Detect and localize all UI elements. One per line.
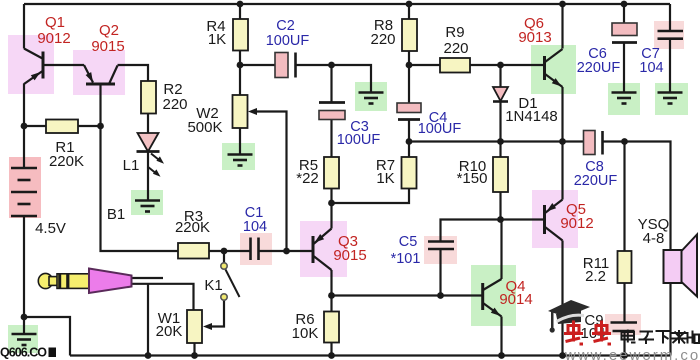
svg-text:4.5V: 4.5V <box>35 220 66 237</box>
highlight pad ground G2 <box>131 190 163 215</box>
svg-text:220K: 220K <box>49 153 84 170</box>
wire node to R7 bottom <box>332 189 410 204</box>
wire Q1 emitter to R1 node <box>23 84 25 127</box>
wire battery node to bottom rail <box>24 317 70 356</box>
wire R7 top lead <box>408 142 410 158</box>
capacitor C8 plates <box>584 131 603 155</box>
svg-text:R9: R9 <box>445 24 464 41</box>
ground G4 <box>359 93 384 104</box>
ground G1 <box>12 334 37 345</box>
wire Q5 emitter up to mid rail <box>561 142 563 200</box>
capacitor C2 plates <box>275 53 296 78</box>
potentiometer W2 body <box>233 95 248 128</box>
node battery ground <box>21 314 28 321</box>
node rail Q5 <box>559 352 566 359</box>
svg-text:Q606.CO: Q606.CO <box>0 346 47 360</box>
highlight pad C9 <box>605 314 641 335</box>
wire C4 bottom lead <box>408 120 410 142</box>
ground G5 <box>612 93 637 104</box>
node rail W1 <box>191 352 198 359</box>
resistor R1 <box>46 120 78 134</box>
wire R8 top lead <box>408 4 410 19</box>
svg-text:220: 220 <box>162 96 187 113</box>
switch K1 <box>221 263 240 300</box>
LED L1 <box>137 133 165 177</box>
wire R1 left lead <box>24 125 46 127</box>
wire R2 to LED L1 <box>147 114 149 134</box>
svg-text:2.2: 2.2 <box>585 268 606 285</box>
svg-text:*101: *101 <box>391 251 421 267</box>
wire node to C5 top <box>441 220 501 242</box>
capacitor C1 plates <box>251 238 259 261</box>
svg-text:*150: *150 <box>457 170 488 187</box>
node rail C9 <box>621 352 628 359</box>
highlight pad ground G4 <box>355 82 387 111</box>
wire C7 to ground G6 <box>669 39 671 93</box>
wire W2 bottom to ground G3 <box>239 128 241 155</box>
svg-text:10K: 10K <box>292 325 319 342</box>
highlight pad C7 <box>654 21 684 49</box>
wire C3 top lead <box>330 65 332 103</box>
wire top supply rail <box>24 3 670 5</box>
node rail plug ground <box>145 352 152 359</box>
node battery-R1 <box>21 123 28 130</box>
watermark chongchong characters <box>564 321 611 345</box>
wire R11 top lead <box>623 142 625 252</box>
highlight pad Q3 <box>300 221 347 277</box>
transistor Q2 <box>84 65 118 84</box>
wire D1 cathode to mid rail <box>499 102 501 142</box>
svg-text:100UF: 100UF <box>337 132 381 148</box>
node top rail at Q6 <box>559 1 566 8</box>
wire Q2 collector to R2 <box>118 65 149 81</box>
wire W1 bottom lead <box>193 343 195 356</box>
svg-text:Q1: Q1 <box>45 14 65 31</box>
transistor Q1 <box>24 49 43 85</box>
svg-text:*22: *22 <box>296 170 319 187</box>
svg-text:20K: 20K <box>156 323 183 340</box>
resistor R10 <box>493 157 508 192</box>
wire plug tip stub <box>132 277 164 279</box>
wire C8 to speaker feed corner <box>603 142 671 251</box>
wire C7 top lead from rail corner <box>669 4 671 31</box>
wire speaker bottom to rail <box>669 283 671 356</box>
svg-text:220: 220 <box>443 40 468 57</box>
svg-text:9015: 9015 <box>91 38 124 55</box>
node Q6-Q5 emitters <box>559 138 566 145</box>
wire node to R3 <box>101 126 179 251</box>
resistor R11 <box>618 251 632 283</box>
highlight pad battery B1 <box>9 157 41 218</box>
svg-text:9012: 9012 <box>560 215 593 232</box>
wire node to C5 bottom node to Q4 base <box>332 294 483 296</box>
node R4-C2-W2 <box>237 62 244 69</box>
wire R10 top lead <box>499 142 501 158</box>
transistor Q6 <box>545 49 563 87</box>
transistor Q5 <box>545 200 563 241</box>
svg-text:B1: B1 <box>107 206 125 223</box>
highlight pad Q2 <box>73 50 125 95</box>
wire R9 to D1 node <box>470 64 501 66</box>
svg-text:220UF: 220UF <box>574 173 618 189</box>
highlight pad C1 <box>240 233 272 265</box>
wire R5 bottom to node <box>330 189 332 204</box>
potentiometer W1 body <box>187 310 202 343</box>
wire plug ground branch <box>147 284 149 356</box>
highlight pad Q1 <box>8 35 54 94</box>
transistor Q3 <box>313 229 332 271</box>
node R9-D1-Q6 <box>497 62 504 69</box>
highlight pad ground G6 <box>655 83 688 115</box>
wire Q3 emitter up to node <box>330 203 332 229</box>
node R10-C5-Q5 <box>497 216 504 223</box>
wire Q3 collector down to node <box>330 270 332 296</box>
watermark site name characters <box>622 330 700 345</box>
svg-text:C5: C5 <box>399 234 418 250</box>
speaker YSQ <box>664 235 698 297</box>
wire C5 bottom lead <box>439 249 441 296</box>
svg-text:1K: 1K <box>208 31 226 48</box>
wire C6 to ground G5 <box>623 43 625 93</box>
node C5-Q4 <box>437 292 444 299</box>
resistor R4 <box>233 19 248 51</box>
capacitor C3 plates <box>319 103 345 120</box>
svg-text:Q2: Q2 <box>99 22 119 39</box>
ground G2 <box>135 201 160 212</box>
wire node to C2 left plate <box>240 64 275 66</box>
node C2-C3 <box>328 62 335 69</box>
diode D1 <box>493 87 508 102</box>
audio plug P1 <box>38 269 131 294</box>
node R3-C1-K1 <box>221 248 228 255</box>
svg-text:220K: 220K <box>175 219 210 236</box>
wire Q6 emitter to mid rail <box>561 87 563 142</box>
ground G6 <box>658 93 683 104</box>
svg-text:100UF: 100UF <box>418 121 462 137</box>
node top rail at R4 <box>237 1 244 8</box>
svg-text:1N4148: 1N4148 <box>505 108 558 125</box>
node top rail at C6 <box>621 1 628 8</box>
highlight pad Q4 <box>471 265 516 326</box>
wire R1 right lead <box>78 125 101 127</box>
highlight pad ground G5 <box>608 83 640 115</box>
resistor R7 <box>402 157 417 189</box>
wire W2 wiper to Q3 base node <box>254 112 287 252</box>
wire W2 top lead <box>239 65 241 95</box>
wire K1 bottom to W1 wiper <box>209 300 224 327</box>
capacitor C4 plates <box>397 103 421 120</box>
capacitor C6 plates <box>612 23 637 43</box>
node R5-R7-Q3 <box>328 200 335 207</box>
highlight pad Q5 <box>532 190 578 248</box>
highlight pad ground G1 <box>8 325 38 353</box>
wire Q6 collector to top rail <box>561 4 563 49</box>
capacitor C9 plates <box>611 323 638 332</box>
wire Q4 emitter to bottom rail <box>500 317 502 356</box>
svg-text:104: 104 <box>243 219 267 235</box>
svg-text:9012: 9012 <box>37 30 70 47</box>
wire D1 anode lead <box>499 65 501 87</box>
wire L1 to ground G2 <box>147 152 149 201</box>
battery B1 plates <box>11 168 37 216</box>
potentiometer W2 wiper arrow <box>248 108 257 115</box>
svg-text:C2: C2 <box>276 18 295 34</box>
wire D1 node to Q6 base <box>501 64 545 66</box>
svg-text:L1: L1 <box>123 157 140 174</box>
node C4-R7 <box>406 138 413 145</box>
wire C4 top lead <box>408 65 410 103</box>
resistor R2 <box>141 81 156 114</box>
highlight pad Q6 <box>531 45 576 94</box>
node rail Q4 <box>498 352 505 359</box>
node R8-R9-C4 <box>406 62 413 69</box>
wire R10 bottom to node <box>499 192 501 220</box>
highlight pad ground G3 <box>222 143 255 170</box>
WATERMARKS <box>0 300 700 360</box>
wire C6 top lead <box>623 4 625 23</box>
wire R3 to C1 node <box>209 250 251 252</box>
node D1-R10 <box>497 138 504 145</box>
svg-text:1K: 1K <box>376 170 394 187</box>
svg-text:500K: 500K <box>187 119 222 136</box>
wire R6 top lead <box>330 296 332 312</box>
wire C1 to Q3 base <box>259 250 314 252</box>
wire C2 node to ground G4 <box>332 65 372 93</box>
wire battery top lead <box>23 126 25 168</box>
svg-text:9015: 9015 <box>333 247 366 264</box>
watermark graduation cap <box>548 300 590 333</box>
wire Q5 collector to bottom rail <box>561 241 563 356</box>
wire C3 to R5 <box>330 120 332 158</box>
capacitor C5 plates <box>428 242 454 250</box>
wire Q4 collector up to node <box>500 220 502 280</box>
wire bottom ground rail <box>70 354 671 356</box>
svg-text:104: 104 <box>639 60 663 76</box>
wire R8 bottom lead <box>408 51 410 65</box>
svg-text:www.eeworm.com: www.eeworm.com <box>564 347 700 360</box>
wire battery ground stem G1 <box>23 317 25 334</box>
capacitor C7 plates <box>658 31 684 39</box>
wire node to Q5 base <box>501 218 545 220</box>
node C8-R11 <box>621 138 628 145</box>
svg-text:K1: K1 <box>204 277 222 294</box>
wire Q2 base drop to node <box>99 84 101 126</box>
svg-text:9013: 9013 <box>518 29 551 46</box>
potentiometer W1 wiper arrow <box>203 323 212 330</box>
node R1-Q2 <box>97 123 104 130</box>
wire R4 top lead <box>239 4 241 19</box>
wire R4 bottom to C2 node <box>239 51 241 66</box>
wire R6 bottom lead <box>330 343 332 356</box>
resistor R5 <box>324 157 339 189</box>
resistor R3 <box>178 243 209 259</box>
node top rail at R8 <box>406 1 413 8</box>
transistor Q4 <box>483 279 502 317</box>
node Q3-R6 <box>328 292 335 299</box>
resistor R6 <box>324 312 339 343</box>
svg-text:4-8: 4-8 <box>643 230 665 247</box>
wire K1 top lead <box>223 251 225 263</box>
wire plug sleeve to W1 top <box>132 284 194 310</box>
wire C2 right plate to C3 node <box>296 64 332 66</box>
wire mid rail C4 to C8 <box>409 140 584 142</box>
wire C9 to bottom rail <box>623 331 625 356</box>
resistor R9 <box>440 58 470 73</box>
wire battery bottom lead <box>23 216 25 317</box>
svg-text:9014: 9014 <box>499 291 532 308</box>
wire Q1 base to Q2 <box>43 64 84 66</box>
svg-text:100UF: 100UF <box>266 33 310 49</box>
node rail R6 <box>328 352 335 359</box>
svg-text:220UF: 220UF <box>577 60 621 76</box>
wire R11 to C9 <box>623 283 625 323</box>
highlight pad C5 <box>424 236 457 264</box>
ground G3 <box>228 155 253 166</box>
wire left drop to Q1 collector <box>23 4 25 49</box>
svg-text:220: 220 <box>370 31 395 48</box>
resistor R8 <box>402 19 417 51</box>
wire node to R9 <box>409 64 440 66</box>
node C1-W2-Q3 <box>283 248 290 255</box>
